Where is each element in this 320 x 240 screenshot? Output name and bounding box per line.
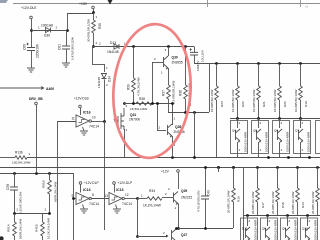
signal arrow A400 xyxy=(0,87,44,90)
svg-text:R13: R13 xyxy=(301,202,305,208)
node R36 bottom xyxy=(184,111,187,114)
svg-text:R20: R20 xyxy=(283,101,287,107)
wire box Q6 bottom pin xyxy=(279,142,281,157)
svg-text:IC16: IC16 xyxy=(83,188,91,192)
wire C58 top xyxy=(14,173,16,187)
top-left page corner mark xyxy=(0,0,8,3)
svg-text:a¶: a¶ xyxy=(305,5,309,9)
output transistor box Q8 xyxy=(261,218,278,240)
wire Q30 collector xyxy=(168,47,170,57)
wire bus to resistor R15 xyxy=(277,167,279,188)
node R30 top xyxy=(92,11,95,14)
node rail167 x233 xyxy=(232,166,235,169)
wire bottom box rail xyxy=(243,215,320,217)
node rail167 x257 xyxy=(256,166,259,169)
wire junction to R34 xyxy=(137,198,147,200)
node rail157 x194 xyxy=(193,156,196,159)
node rail167 x297 xyxy=(296,166,299,169)
node bus column R20 xyxy=(278,62,281,65)
svg-text:R23: R23 xyxy=(220,101,224,107)
wire C61 to ground xyxy=(66,49,68,63)
wire R51A bottom xyxy=(14,236,16,240)
svg-text:130,5%,1/4W: 130,5%,1/4W xyxy=(12,161,31,165)
wire box Q10 top pin xyxy=(307,216,309,227)
capacitor C34 plus sign xyxy=(190,48,192,50)
node rail157 x172 xyxy=(171,156,174,159)
svg-text:20-0R5,1R,1/4W: 20-0R5,1R,1/4W xyxy=(251,191,255,214)
svg-text:D14: D14 xyxy=(108,76,112,82)
svg-text:Q27: Q27 xyxy=(181,233,187,237)
svg-text:20-0R5,1R,1/4W: 20-0R5,1R,1/4W xyxy=(311,191,315,214)
wire Q31 source down xyxy=(124,129,126,157)
svg-text:100V,63V-NRR: 100V,63V-NRR xyxy=(253,219,257,240)
transistor Q31 mosfet symbol xyxy=(114,108,124,130)
node rail213 x49 xyxy=(48,212,51,215)
gate3 power stub xyxy=(80,108,82,115)
svg-text:Q9: Q9 xyxy=(282,227,286,231)
svg-text:C60: C60 xyxy=(23,44,27,50)
svg-text:74C14: 74C14 xyxy=(122,202,132,206)
svg-text:R22: R22 xyxy=(241,101,245,107)
svg-text:R39: R39 xyxy=(127,84,131,90)
svg-text:0.22UF,100V,5%: 0.22UF,100V,5% xyxy=(19,191,23,214)
svg-text:560R,2%,1/4W: 560R,2%,1/4W xyxy=(54,182,58,202)
tick mark x=207 on top rail xyxy=(207,0,209,7)
wire C58 bottom xyxy=(14,190,16,214)
svg-text:13: 13 xyxy=(105,194,109,198)
resistor R20 xyxy=(278,86,282,100)
wire node to diode D30 xyxy=(31,30,67,32)
node rail167 x218 xyxy=(217,166,220,169)
transistor D11 symbol xyxy=(246,227,251,239)
svg-text:DRV_GB: DRV_GB xyxy=(29,97,43,101)
transistor Q27 xyxy=(172,229,177,240)
svg-text:R136: R136 xyxy=(15,151,23,155)
node gate3 output D14 junction xyxy=(103,120,106,123)
ground below gate2 xyxy=(113,209,121,213)
wire D14 column down xyxy=(104,121,106,230)
node bus column R22 xyxy=(236,62,239,65)
resistor R51A xyxy=(13,222,17,236)
svg-text:10-0R5,5R,1/4W: 10-0R5,5R,1/4W xyxy=(273,89,277,112)
wire R19 bottom xyxy=(300,100,302,118)
svg-text:100V,63V-NRR: 100V,63V-NRR xyxy=(273,219,277,240)
wire x73 rail down xyxy=(73,173,75,240)
output transistor box Q10 xyxy=(301,218,318,240)
transistor Q29 xyxy=(174,192,179,204)
svg-text:R17: R17 xyxy=(261,202,265,208)
wire box Q5 top pin xyxy=(258,118,260,128)
wire gate2 ground stem xyxy=(116,205,118,210)
svg-text:10U,10V: 10U,10V xyxy=(201,49,205,62)
svg-text:Q7: Q7 xyxy=(295,129,299,133)
wire R20 bottom xyxy=(279,100,281,118)
gate1 power terminal xyxy=(79,182,82,185)
ground below gate3 xyxy=(80,131,88,135)
inverter gate IC16-B output bubble xyxy=(122,197,124,199)
node rail213 x14 xyxy=(13,212,16,215)
svg-text:74C14: 74C14 xyxy=(89,202,99,206)
wire box Q4 top pin xyxy=(237,118,239,128)
svg-text:1N4148: 1N4148 xyxy=(107,50,119,54)
resistor R21 xyxy=(257,86,261,100)
resistor R19 xyxy=(299,86,303,100)
wire to Q27 base xyxy=(137,236,166,238)
svg-text:20-0R5,1R,1/4W: 20-0R5,1R,1/4W xyxy=(227,190,231,213)
wire rail corner down xyxy=(194,47,196,53)
terminal +12V-DLE xyxy=(30,16,33,19)
svg-text:10-0R5,5R,1/4W: 10-0R5,5R,1/4W xyxy=(231,89,235,112)
wire Q27 collector xyxy=(176,228,178,229)
wire Q30 base xyxy=(152,62,163,64)
svg-text:+13V: +13V xyxy=(79,2,88,6)
svg-text:Q31: Q31 xyxy=(130,113,136,117)
node D30 right junction xyxy=(66,29,69,32)
svg-text:Q30: Q30 xyxy=(172,56,178,60)
svg-text:10-0R5,5R,1/4W: 10-0R5,5R,1/4W xyxy=(252,89,256,112)
node box rail x258 xyxy=(257,117,260,120)
svg-text:Q6: Q6 xyxy=(274,129,278,133)
output transistor box partial right edge xyxy=(316,121,320,154)
wire right rail down xyxy=(243,167,245,240)
svg-text:10-0R5,5R,1/4W: 10-0R5,5R,1/4W xyxy=(210,89,214,112)
transistor Q8 symbol xyxy=(266,227,271,239)
wire left sub rail y173 xyxy=(0,173,73,175)
svg-text:D11: D11 xyxy=(242,227,248,231)
node rail157 x309 xyxy=(308,156,311,159)
wire Q28 base xyxy=(157,130,166,132)
transistor Q5 symbol xyxy=(257,129,262,141)
wire R11 bottom xyxy=(317,202,319,216)
wire drain rail xyxy=(124,103,172,105)
node bus column R23 xyxy=(215,62,218,65)
wire bus to resistor R11 xyxy=(317,167,319,188)
wire to R30 top xyxy=(67,13,93,15)
inverter gate IC16-C output bubble xyxy=(89,120,91,122)
resistor R38 xyxy=(136,102,152,105)
wire R37 bottom xyxy=(168,99,170,112)
svg-text:1K,2%,1/4W: 1K,2%,1/4W xyxy=(143,204,161,208)
node box rail x300 xyxy=(299,117,302,120)
gate3 power terminal xyxy=(79,105,82,108)
transistor Q4 symbol xyxy=(236,129,241,141)
svg-text:2N3055: 2N3055 xyxy=(172,61,183,65)
wire D14 to gate node xyxy=(104,80,106,122)
transistor Q9 symbol xyxy=(286,227,291,239)
node Q28 collector top xyxy=(171,102,174,105)
svg-text:Q29: Q29 xyxy=(181,189,187,193)
svg-text:R34: R34 xyxy=(149,189,155,193)
wire gate3 ground stem xyxy=(83,127,85,131)
resistor R11 xyxy=(316,188,320,202)
inverter gate IC16-C body xyxy=(76,115,89,127)
wire driver box rail xyxy=(230,118,320,120)
svg-text:74C14: 74C14 xyxy=(89,125,99,129)
ground below C60 xyxy=(27,68,35,72)
wire into R30 xyxy=(93,13,95,21)
wire from terminal down xyxy=(31,19,33,47)
node bus column R19 xyxy=(299,62,302,65)
svg-text:+12V-DLP: +12V-DLP xyxy=(118,181,133,185)
node C49 bottom xyxy=(204,227,207,230)
svg-text:R38: R38 xyxy=(139,97,145,101)
svg-text:20-0R5,1R,1/4W: 20-0R5,1R,1/4W xyxy=(271,191,275,214)
svg-text:4.7K,39,1/4W: 4.7K,39,1/4W xyxy=(137,77,141,96)
wire R51A top xyxy=(14,214,16,223)
wire tie to bus xyxy=(209,64,211,112)
inverter gate IC16-A output bubble xyxy=(89,197,91,199)
wire branch down from R30 node xyxy=(92,47,94,65)
svg-text:+12V-DLB: +12V-DLB xyxy=(74,97,89,101)
transistor Q10 symbol xyxy=(306,227,311,239)
wire mid rail y157 xyxy=(27,157,320,159)
output transistor box D11 xyxy=(241,218,258,240)
svg-text:Q28: Q28 xyxy=(175,125,181,129)
svg-text:C58: C58 xyxy=(6,184,10,190)
svg-text:R19: R19 xyxy=(304,101,308,107)
svg-text:R36: R36 xyxy=(179,90,183,96)
ground below gate1 xyxy=(80,209,88,213)
transistor Q28 xyxy=(168,124,173,136)
wire R30 to node xyxy=(93,33,95,47)
wire R15 bottom xyxy=(277,202,279,216)
wire Q29 emitter down xyxy=(178,204,180,229)
wire R51B bottom xyxy=(49,194,51,214)
wire Q28 base column xyxy=(157,103,159,130)
svg-text:R51B: R51B xyxy=(42,180,46,188)
wire R16 top xyxy=(233,167,235,188)
wire R21 bottom xyxy=(258,100,260,118)
node bottom rail x307.0 xyxy=(306,214,309,217)
node terminal junction xyxy=(30,29,33,32)
node C49 top xyxy=(204,166,207,169)
tick mark x=300 on top rail xyxy=(300,0,302,7)
gate1 power stub xyxy=(80,185,82,193)
svg-text:R37: R37 xyxy=(162,90,166,96)
svg-text:100V,63V-NRR: 100V,63V-NRR xyxy=(264,131,268,152)
wire gate3 output xyxy=(91,121,104,123)
wire Q28 emitter down xyxy=(172,136,174,157)
node rail173 x36 xyxy=(35,172,38,175)
svg-text:0.47UF,50V,10%: 0.47UF,50V,10% xyxy=(71,37,75,60)
resistor R17 xyxy=(256,188,260,202)
node R16 top xyxy=(232,166,235,169)
wire box Q5 bottom pin xyxy=(258,142,260,157)
resistor R36 xyxy=(184,85,188,99)
tick on top rail xyxy=(108,0,113,5)
capacitor C60 plates xyxy=(27,48,35,51)
node bottom rail x267.0 xyxy=(266,214,269,217)
wire gate3 input vert xyxy=(57,121,59,240)
wire stub down xyxy=(218,167,220,172)
transistor Q30 xyxy=(164,56,169,68)
wire R17 bottom xyxy=(257,202,259,216)
node Q27 collector xyxy=(175,227,178,230)
svg-text:IC16: IC16 xyxy=(116,188,124,192)
node rail173 x14 xyxy=(13,172,16,175)
node rail167 stub xyxy=(217,166,220,169)
wire bus to resistor R17 xyxy=(257,167,259,188)
wire mid rail y157 left xyxy=(0,157,15,159)
wire bus to resistor R23 xyxy=(216,64,218,87)
wire R36 bottom xyxy=(185,99,187,112)
svg-text:R15: R15 xyxy=(281,202,285,208)
wire tie down to output rail xyxy=(194,112,196,157)
wire R39 to drain rail xyxy=(133,92,135,103)
node rail167 x277 xyxy=(276,166,279,169)
gate2 power stub xyxy=(114,185,116,193)
node rail157 x268 xyxy=(267,156,270,159)
node box rail x279 xyxy=(278,117,281,120)
node tie rail xyxy=(193,111,196,114)
resistor R13 xyxy=(296,188,300,202)
wire box D11 top pin xyxy=(247,216,249,227)
svg-text:30-0R5,5R,1/2W: 30-0R5,5R,1/2W xyxy=(87,19,91,42)
svg-text:100V,63V-NRR: 100V,63V-NRR xyxy=(313,219,317,240)
svg-text:R41B: R41B xyxy=(35,224,39,232)
wire into diode D14 xyxy=(104,64,106,72)
svg-text:R21: R21 xyxy=(262,101,266,107)
svg-text:20-0R5,1R,1/4W: 20-0R5,1R,1/4W xyxy=(291,191,295,214)
svg-text:100V,63V-NRR: 100V,63V-NRR xyxy=(243,131,247,152)
node Q29 emitter xyxy=(177,227,180,230)
resistor R22 xyxy=(236,86,240,100)
output transistor box Q6 xyxy=(273,121,290,154)
wire mid rail y167 xyxy=(0,167,320,169)
wire R34 to Q29 base xyxy=(162,197,173,199)
svg-text:Q10: Q10 xyxy=(302,227,308,231)
svg-text:100V,63V-NRR: 100V,63V-NRR xyxy=(293,219,297,240)
wire R41B top xyxy=(42,214,44,223)
diode D13 xyxy=(114,44,119,49)
svg-text:Q8: Q8 xyxy=(262,227,266,231)
svg-text:R51A: R51A xyxy=(7,223,11,232)
wire C60 to ground xyxy=(31,50,33,68)
node gate1 feed xyxy=(72,197,75,200)
svg-text:4.7U1F,50V,20V: 4.7U1F,50V,20V xyxy=(197,190,201,212)
svg-text:R30: R30 xyxy=(98,23,102,29)
wire R22 bottom xyxy=(237,100,239,118)
svg-text:560R,2%,1/4W: 560R,2%,1/4W xyxy=(19,219,23,239)
resistor R41B xyxy=(41,222,45,236)
wire node to C61 xyxy=(66,30,68,46)
node Q31 drain xyxy=(123,102,126,105)
terminal DRV_GB xyxy=(35,102,38,105)
resistor R15 xyxy=(276,188,280,202)
svg-text:D30: D30 xyxy=(44,34,50,38)
svg-text:100V,63V-NRR: 100V,63V-NRR xyxy=(285,131,289,152)
node D13 output xyxy=(132,45,135,48)
resistor R39 xyxy=(132,78,136,92)
inverter gate IC16-B hysteresis mark xyxy=(112,197,118,200)
inverter gate IC16-B body xyxy=(109,193,122,205)
svg-text:100V,63V-NRR: 100V,63V-NRR xyxy=(306,131,310,152)
wire gate1 ground stem xyxy=(83,205,85,210)
wire C49 bottom xyxy=(205,199,207,228)
diode D14 xyxy=(102,74,107,79)
wire R51B top xyxy=(49,173,51,180)
svg-text:D13: D13 xyxy=(110,41,116,45)
node Q30 collector rail xyxy=(167,45,170,48)
gate2 power terminal xyxy=(113,182,116,185)
wire C34 to bus xyxy=(194,55,196,64)
capacitor C60 plus sign xyxy=(27,43,29,45)
wire driver bus xyxy=(194,63,320,65)
bottom left corner blob xyxy=(0,236,4,240)
wire bus to resistor R21 xyxy=(258,64,260,87)
wire base rail xyxy=(93,46,194,48)
transistor Q7 symbol xyxy=(299,129,304,141)
wire Q30 base column xyxy=(152,62,154,103)
resistor R16 xyxy=(232,188,236,202)
resistor R37 xyxy=(167,85,171,99)
inverter gate IC16-A body xyxy=(76,193,89,205)
wire Q28 collector xyxy=(172,103,174,125)
wire R23 bottom xyxy=(216,100,218,157)
node bottom rail x287.0 xyxy=(286,214,289,217)
wire junction down to Q27 base xyxy=(137,199,139,237)
wire box Q7 bottom pin xyxy=(300,142,302,157)
wire gate2 output xyxy=(124,198,137,200)
svg-text:+12V-DLE: +12V-DLE xyxy=(21,6,37,10)
svg-text:12: 12 xyxy=(125,193,129,197)
svg-text:1K,5%,1/4W: 1K,5%,1/4W xyxy=(130,107,147,111)
capacitor C58 plates xyxy=(10,187,18,190)
inverter gate IC16-C hysteresis mark xyxy=(79,120,85,123)
svg-text:IC16: IC16 xyxy=(83,111,91,115)
wire C49 top xyxy=(205,167,207,196)
capacitor C34 plates xyxy=(190,52,198,55)
svg-text:+12V: +12V xyxy=(161,170,170,174)
wire bus to resistor R20 xyxy=(279,64,281,87)
wire Q30 emitter to R37 xyxy=(168,68,170,85)
svg-text:2N7000: 2N7000 xyxy=(129,118,140,122)
node gate2 output junction xyxy=(136,197,139,200)
node R30 bottom xyxy=(92,45,95,48)
wire gate1 to gate2 xyxy=(91,198,109,200)
node bottom rail x247.0 xyxy=(246,214,249,217)
wire node to R39 xyxy=(133,47,135,79)
svg-text:R16: R16 xyxy=(237,196,241,202)
transistor Q6 symbol xyxy=(278,129,283,141)
svg-text:11: 11 xyxy=(72,117,76,121)
wire box Q8 top pin xyxy=(267,216,269,227)
wire DRV_GB column xyxy=(36,105,38,173)
resistor R34 xyxy=(147,197,162,200)
svg-text:Q4: Q4 xyxy=(232,129,236,133)
ground below C61 xyxy=(62,63,70,67)
node Q27 base corner xyxy=(136,235,139,238)
wire terminal to Q29 collector xyxy=(178,173,180,189)
wire bus to resistor R22 xyxy=(237,64,239,87)
svg-text:2.2-0R5,5R,1/4W: 2.2-0R5,5R,1/4W xyxy=(172,81,176,104)
node rail167 x317 xyxy=(316,166,319,169)
node box rail x237 xyxy=(236,117,239,120)
svg-text:1N4148: 1N4148 xyxy=(97,77,101,88)
svg-text:10.2K,1%,1/4W: 10.2K,1%,1/4W xyxy=(47,218,51,239)
wire top horizontal rail xyxy=(13,3,320,5)
svg-text:C49: C49 xyxy=(207,190,211,196)
node rail173 x49 xyxy=(48,172,51,175)
svg-text:10D1A8: 10D1A8 xyxy=(41,24,53,28)
resistor R30 xyxy=(92,20,96,33)
red highlight ellipse xyxy=(109,21,195,160)
svg-text:11M,5V: 11M,5V xyxy=(196,60,200,71)
svg-text:C61: C61 xyxy=(58,44,62,50)
node base column top xyxy=(156,102,159,105)
wire R13 bottom xyxy=(297,202,299,216)
wire node up xyxy=(67,13,69,30)
